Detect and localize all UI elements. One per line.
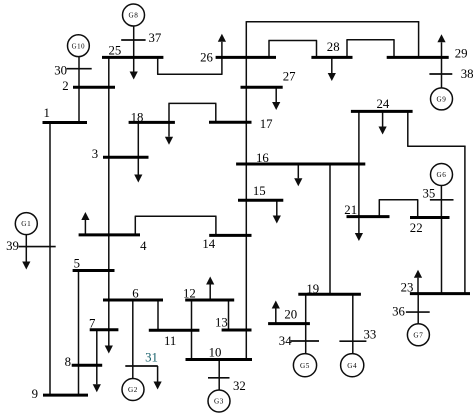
bus 8: [72, 364, 103, 367]
bus 10: [186, 358, 253, 361]
wire 26-28 connector: [268, 41, 317, 59]
bus 36 (generator tick): [406, 311, 430, 313]
bus 24: [351, 110, 413, 113]
svg-text:12: 12: [183, 287, 196, 301]
generator G9: [431, 88, 453, 110]
wire 16-19: [329, 164, 331, 294]
bus 20: [268, 322, 310, 325]
wire 19-33 to G4 (through tick 33): [352, 294, 354, 353]
wire G10 to bus 2 (through tick 30): [78, 57, 80, 89]
svg-text:11: 11: [164, 334, 176, 348]
load arrow bus 18: [165, 123, 173, 145]
wire 25-26 connector: [157, 56, 222, 74]
wire 25-2-3-4-5-6-7 (main left vertical): [108, 57, 110, 329]
generator G8: [123, 4, 145, 26]
wire 5-8-9: [78, 271, 80, 396]
svg-text:39: 39: [6, 239, 19, 253]
svg-text:5: 5: [74, 256, 80, 270]
svg-text:25: 25: [109, 44, 122, 58]
wire 22-23: [441, 218, 443, 295]
load arrow bus 3: [134, 157, 142, 182]
wire 6-11: [157, 300, 159, 331]
svg-text:30: 30: [54, 63, 67, 77]
svg-text:4: 4: [140, 239, 147, 253]
generator G4: [341, 354, 364, 377]
injection arrow bus 12 (up): [206, 277, 214, 300]
bus 19: [298, 293, 361, 296]
injection arrow bus 20 (up): [272, 301, 280, 323]
wire 18-3: [137, 122, 139, 157]
bus 16: [236, 163, 365, 166]
bus 38 (generator tick): [429, 73, 452, 75]
load arrow bus 31: [154, 366, 162, 390]
svg-text:G2: G2: [128, 386, 138, 394]
svg-text:24: 24: [377, 97, 390, 111]
bus 25: [102, 56, 163, 59]
svg-text:G5: G5: [300, 362, 310, 370]
svg-text:2: 2: [62, 79, 68, 93]
svg-text:22: 22: [410, 221, 423, 235]
load arrow bus 15: [273, 201, 281, 223]
generator G7: [407, 324, 429, 346]
bus 14: [209, 234, 251, 237]
bus 27: [241, 86, 283, 89]
generator G1: [15, 213, 37, 235]
injection arrow bus 23 (up): [414, 270, 422, 293]
wire 29/26-27-17-16-15-14-13-10 (long center vertical): [245, 21, 247, 359]
wire G9 to bus 29 (through tick 38): [441, 56, 443, 88]
wire 7-8: [96, 330, 98, 367]
wire 17-18 connector: [168, 103, 216, 123]
svg-text:16: 16: [256, 151, 269, 165]
svg-text:19: 19: [306, 282, 319, 296]
generator G3: [208, 390, 230, 412]
wire 26-29 top line: [246, 22, 419, 59]
svg-text:3: 3: [92, 147, 98, 161]
bus 34 (generator tick): [290, 340, 319, 342]
wire 28-29 connector: [346, 40, 394, 59]
svg-text:G10: G10: [72, 43, 86, 50]
wire 24-23 connector: [407, 110, 465, 295]
bus 4: [79, 233, 140, 236]
injection arrow bus 29 (up): [437, 34, 445, 56]
svg-text:31: 31: [145, 350, 158, 364]
load arrow bus 25: [130, 59, 138, 80]
svg-text:27: 27: [283, 69, 296, 83]
bus 3: [103, 156, 149, 159]
wire 21-22 connector: [379, 200, 419, 219]
svg-text:G9: G9: [437, 96, 447, 104]
load arrow bus 7: [105, 330, 113, 354]
svg-text:14: 14: [202, 237, 215, 251]
injection arrow bus 26 (up): [218, 34, 226, 57]
svg-text:34: 34: [279, 334, 292, 348]
svg-text:29: 29: [455, 46, 468, 60]
generator G5: [293, 354, 316, 377]
bus 13: [222, 329, 252, 332]
svg-text:13: 13: [215, 316, 228, 330]
wire G1 to tick 39: [25, 235, 27, 248]
svg-text:35: 35: [423, 186, 436, 200]
load arrow bus 27: [272, 88, 280, 110]
svg-text:28: 28: [327, 40, 340, 54]
load arrow bus 39: [22, 247, 30, 270]
svg-text:37: 37: [149, 31, 162, 45]
svg-text:8: 8: [65, 355, 71, 369]
wire 2-1: [78, 86, 80, 124]
svg-text:G8: G8: [129, 12, 139, 20]
bus 28: [311, 56, 352, 59]
load arrow bus 8: [93, 365, 101, 392]
svg-text:G1: G1: [21, 220, 31, 228]
bus 31 (generator tick): [125, 365, 158, 367]
bus 5: [73, 269, 115, 272]
bus 32 (generator tick): [208, 377, 230, 379]
generator G6: [431, 164, 453, 186]
bus 23: [410, 292, 470, 295]
bus 18: [129, 121, 175, 124]
bus 15: [238, 199, 283, 202]
svg-text:7: 7: [89, 316, 96, 330]
wire 19-20 to G5 (through tick 34): [305, 294, 307, 353]
wire 4-14 connector: [135, 216, 217, 236]
bus 12: [185, 299, 234, 302]
svg-text:G6: G6: [437, 171, 447, 179]
svg-text:20: 20: [284, 307, 297, 321]
svg-text:1: 1: [44, 106, 50, 120]
svg-text:10: 10: [209, 345, 222, 359]
bus 39 (generator tick): [19, 246, 56, 248]
svg-text:18: 18: [131, 110, 144, 124]
bus 35 (generator tick): [430, 199, 454, 201]
bus 21: [347, 215, 390, 218]
wire 24-16-21: [358, 111, 360, 216]
load arrow bus 24: [379, 113, 387, 135]
injection arrow bus 4 (up): [81, 212, 89, 236]
bus 37 (generator tick): [121, 39, 145, 41]
svg-text:6: 6: [132, 287, 139, 301]
generator G10: [68, 35, 90, 57]
bus 17: [209, 121, 252, 124]
wire G8 to bus 25 (through tick 37): [133, 26, 135, 59]
wire 1-39-9 (left vertical through tick 39): [49, 123, 51, 396]
wire 10-32 to G3 (through tick 32): [218, 360, 220, 390]
svg-text:9: 9: [32, 387, 38, 401]
wire 12-11-10: [191, 300, 193, 360]
bus 2: [73, 86, 115, 89]
bus 1: [43, 121, 88, 124]
generator G2: [122, 379, 144, 401]
wire 6-31 to G2 (through tick 31): [132, 300, 134, 378]
bus 33 (generator tick): [339, 340, 366, 342]
bus 6: [103, 299, 163, 302]
svg-text:G3: G3: [214, 398, 224, 406]
wire 23-36 to G7 (through tick 36): [417, 294, 419, 324]
svg-text:G4: G4: [347, 362, 357, 370]
bus 22: [410, 216, 450, 219]
svg-text:38: 38: [461, 67, 474, 81]
wire 12-13: [228, 300, 230, 331]
svg-text:26: 26: [200, 50, 213, 64]
svg-text:33: 33: [364, 327, 377, 341]
bus 11: [149, 329, 200, 332]
svg-text:17: 17: [260, 117, 273, 131]
load arrow bus 16: [294, 165, 302, 186]
wire G6 to bus 22 (through tick 35): [440, 185, 442, 218]
bus 7: [90, 328, 119, 331]
svg-text:15: 15: [253, 184, 266, 198]
bus 29: [387, 56, 449, 59]
svg-text:21: 21: [344, 203, 357, 217]
svg-text:G7: G7: [413, 331, 423, 339]
bus 9: [43, 394, 88, 397]
bus 30 (generator tick): [67, 68, 92, 70]
bus 26: [216, 56, 276, 59]
svg-text:32: 32: [233, 379, 246, 393]
svg-text:36: 36: [392, 305, 405, 319]
load arrow bus 21: [355, 218, 363, 241]
load arrow bus 28: [328, 59, 336, 82]
svg-text:23: 23: [401, 280, 414, 294]
